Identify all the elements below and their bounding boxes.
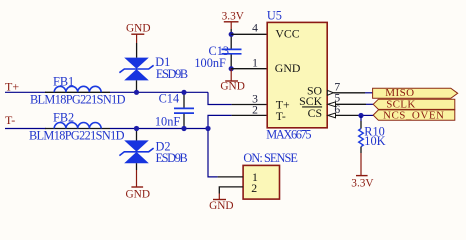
junction dot C13 bottom (229, 66, 234, 71)
svg-text:4: 4 (252, 22, 258, 35)
svg-text:GND: GND (126, 189, 150, 201)
svg-text:1: 1 (252, 57, 258, 70)
svg-text:ESD9B: ESD9B (156, 151, 188, 165)
svg-text:C14: C14 (159, 92, 180, 106)
connector ON: SENSE (243, 151, 298, 199)
junction dot D1/T+ (134, 90, 139, 95)
junction dot T- branch (205, 126, 210, 131)
svg-text:GND: GND (275, 61, 301, 75)
power 3.3V (top) (222, 10, 245, 34)
ground (connector pin 2) (209, 194, 233, 213)
wire pin4 (231, 33, 267, 35)
svg-text:10nF: 10nF (155, 115, 180, 129)
pin 5 wire (336, 103, 367, 105)
svg-text:MISO: MISO (385, 87, 414, 99)
pin2 stub (232, 114, 268, 116)
svg-text:MAX6675: MAX6675 (266, 128, 311, 142)
svg-text:NCS_OVEN: NCS_OVEN (383, 110, 444, 122)
wire T- to jog (110, 128, 208, 130)
ferrite bead FB1 (30, 75, 126, 107)
diode D1 ESD9B (119, 43, 188, 92)
port SCLK (373, 98, 455, 110)
ground (above D1) (126, 22, 150, 43)
port NCS_OVEN (373, 110, 455, 122)
svg-text:3.3V: 3.3V (351, 177, 374, 189)
wire T+ jog down to pin3 (208, 92, 232, 104)
svg-text:GND: GND (209, 200, 233, 212)
wire pin2 jog up (208, 115, 232, 128)
junction dot C14 bottom (181, 126, 186, 131)
svg-text:T-: T- (5, 113, 15, 127)
wire down to connector (208, 129, 218, 177)
pin 6 input triangle (328, 113, 336, 118)
svg-text:ON: SENSE: ON: SENSE (243, 151, 298, 165)
svg-text:10K: 10K (364, 134, 385, 148)
diode D2 ESD9B (119, 129, 187, 171)
pin 5 input triangle (328, 102, 336, 107)
resistor R10 (359, 116, 386, 154)
junction dot pin6/R10 (358, 113, 363, 118)
svg-text:VCC: VCC (275, 26, 299, 40)
svg-text:BLM18PG221SN1D: BLM18PG221SN1D (29, 129, 125, 143)
wire T- left (5, 128, 46, 130)
wire pin1 (231, 68, 267, 70)
pin3 stub (232, 104, 268, 106)
svg-text:FB1: FB1 (53, 75, 74, 89)
ground (below C13) (220, 69, 244, 93)
pin 2 stub connector (219, 187, 243, 194)
ferrite bead FB2 (29, 111, 125, 143)
wire T+ to jog (110, 91, 208, 93)
svg-text:2: 2 (252, 103, 258, 116)
power 3.3V (bottom) (351, 153, 374, 189)
pin 1 stub connector (218, 176, 244, 178)
wire T+ left (5, 91, 46, 93)
svg-text:2: 2 (251, 181, 257, 195)
svg-text:SCLK: SCLK (386, 98, 415, 110)
svg-text:ESD9B: ESD9B (156, 67, 188, 81)
capacitor C13 (194, 34, 241, 70)
svg-text:100nF: 100nF (194, 56, 226, 70)
op-amp U5 MAX6675 body (266, 9, 327, 142)
svg-text:GND: GND (220, 81, 244, 93)
pin 7 output triangle (327, 90, 333, 95)
junction dot D2/T- (134, 126, 139, 131)
svg-text:CS: CS (308, 106, 322, 120)
svg-text:U5: U5 (267, 9, 282, 23)
svg-text:3.3V: 3.3V (222, 10, 245, 22)
junction dot C13 top (229, 32, 234, 37)
ground (below D2) (126, 170, 150, 201)
port MISO (373, 87, 458, 99)
capacitor C14 (155, 92, 194, 129)
svg-text:T+: T+ (5, 80, 19, 94)
svg-text:FB2: FB2 (53, 111, 74, 125)
junction dot C14 top (181, 90, 186, 95)
svg-text:T-: T- (276, 109, 286, 123)
svg-text:GND: GND (126, 22, 150, 34)
pin 6 wire (336, 114, 359, 116)
svg-text:BLM18PG221SN1D: BLM18PG221SN1D (30, 93, 126, 107)
pin 7 wire (333, 92, 365, 94)
